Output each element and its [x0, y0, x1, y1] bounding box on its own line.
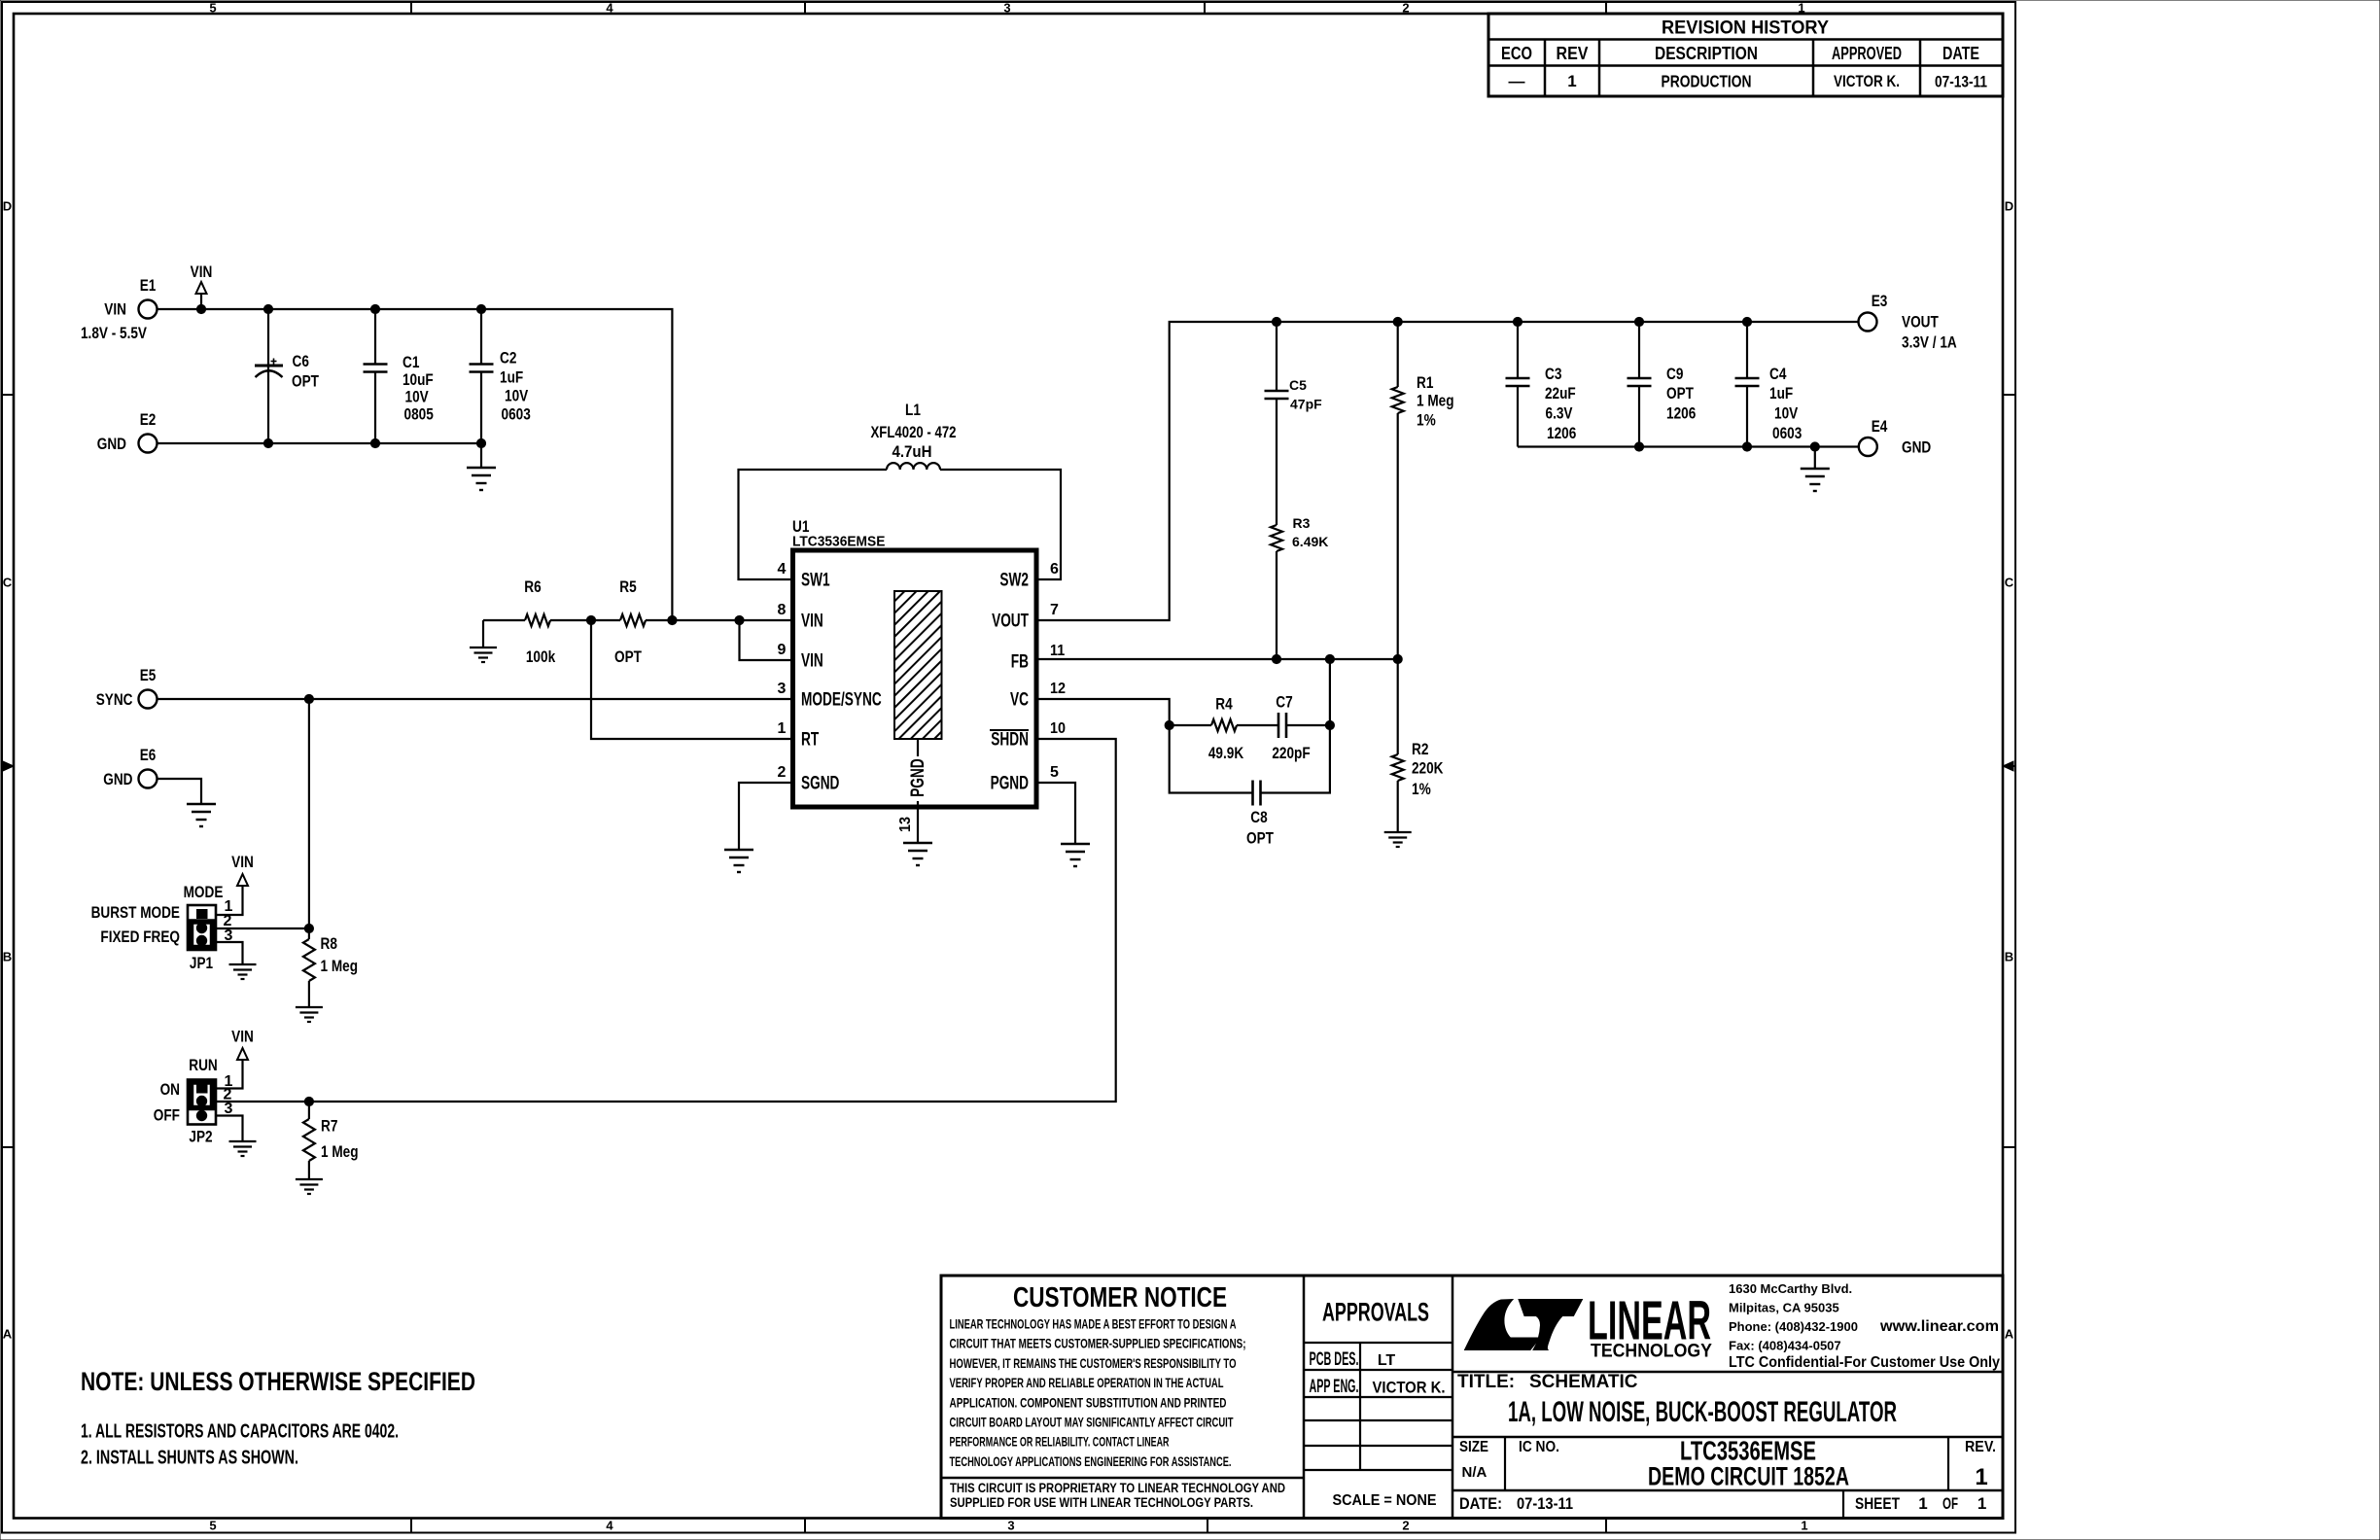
svg-text:E1: E1 — [140, 276, 157, 295]
wire JP2 pin 1 to VIN flag — [216, 1060, 243, 1089]
svg-text:VIN: VIN — [104, 300, 126, 319]
capacitor C5 47pF — [1265, 322, 1323, 525]
power flag VIN (JP1) — [231, 853, 254, 886]
svg-text:D: D — [3, 199, 12, 214]
svg-text:6.49K: 6.49K — [1292, 534, 1328, 549]
svg-text:C: C — [3, 576, 13, 590]
svg-text:1: 1 — [1801, 1519, 1807, 1533]
svg-text:9: 9 — [778, 642, 787, 658]
svg-text:DESCRIPTION: DESCRIPTION — [1655, 44, 1758, 63]
ground at output rail — [1801, 447, 1830, 492]
resistor R6 100k — [483, 577, 591, 666]
svg-text:1630 McCarthy Blvd.: 1630 McCarthy Blvd. — [1729, 1281, 1852, 1296]
capacitor C8 OPT — [1246, 781, 1274, 848]
capacitor C4 1uF — [1735, 322, 1802, 447]
junction VOUT / C3 — [1513, 317, 1522, 326]
U1 pin name SHDN (active low) — [990, 729, 1029, 751]
svg-text:1 Meg: 1 Meg — [321, 1142, 359, 1161]
wire JP1 pin 3 to ground — [216, 942, 243, 964]
logo Linear Technology — [1465, 1290, 1713, 1362]
svg-text:1%: 1% — [1412, 780, 1431, 798]
svg-text:6.3V: 6.3V — [1546, 404, 1574, 423]
svg-text:U1: U1 — [792, 517, 809, 536]
svg-text:R4: R4 — [1215, 695, 1233, 714]
svg-text:22uF: 22uF — [1545, 384, 1576, 402]
svg-text:N/A: N/A — [1462, 1464, 1487, 1481]
border center arrow left — [2, 761, 14, 771]
svg-text:PGND: PGND — [907, 758, 928, 796]
svg-text:GND: GND — [97, 435, 126, 453]
junction JP1 pin2 / R8 — [304, 924, 313, 932]
junction gnd rail / C2 — [476, 438, 485, 447]
svg-text:HOWEVER, IT REMAINS THE CUSTOM: HOWEVER, IT REMAINS THE CUSTOMER'S RESPO… — [950, 1356, 1237, 1371]
svg-text:1%: 1% — [1417, 411, 1436, 430]
svg-text:1: 1 — [1567, 72, 1576, 90]
svg-text:C1: C1 — [402, 353, 419, 371]
svg-text:A: A — [3, 1327, 13, 1342]
svg-text:OPT: OPT — [292, 372, 319, 391]
svg-text:BURST MODE: BURST MODE — [91, 903, 180, 922]
wire PGND pin 5 to ground — [1036, 783, 1075, 844]
svg-text:5: 5 — [209, 1, 216, 16]
ground at pin 13 — [903, 843, 932, 865]
svg-text:LTC Confidential-For Customer: LTC Confidential-For Customer Use Only — [1729, 1354, 2000, 1371]
svg-text:RT: RT — [801, 729, 819, 751]
svg-text:GND: GND — [103, 770, 132, 788]
svg-text:SYNC: SYNC — [96, 690, 133, 709]
svg-text:CIRCUIT BOARD LAYOUT MAY SIGNI: CIRCUIT BOARD LAYOUT MAY SIGNIFICANTLY A… — [950, 1416, 1234, 1430]
svg-text:1 Meg: 1 Meg — [321, 957, 359, 975]
svg-text:VICTOR K.: VICTOR K. — [1373, 1379, 1446, 1397]
border zone letters right — [2005, 199, 2014, 1342]
svg-text:VIN: VIN — [801, 611, 823, 632]
svg-text:XFL4020 - 472: XFL4020 - 472 — [871, 423, 957, 441]
junction gnd rail / C1 — [370, 438, 379, 447]
ground at R6 — [470, 620, 497, 662]
junction out gnd / C4 — [1742, 442, 1751, 451]
svg-text:C4: C4 — [1769, 365, 1787, 383]
svg-text:SGND: SGND — [801, 773, 839, 794]
junction out gnd / C9 — [1634, 442, 1643, 451]
svg-text:OPT: OPT — [1666, 384, 1694, 402]
svg-text:1.8V - 5.5V: 1.8V - 5.5V — [81, 324, 148, 342]
IC U1 LTC3536EMSE body — [792, 517, 1036, 807]
svg-text:SIZE: SIZE — [1459, 1439, 1488, 1455]
svg-text:1: 1 — [1977, 1494, 1986, 1513]
svg-text:OPT: OPT — [614, 647, 642, 666]
svg-text:SW2: SW2 — [999, 570, 1029, 591]
wire JP2 pin 3 to ground — [216, 1116, 243, 1142]
junction SYNC / JP1 branch — [304, 694, 313, 703]
svg-text:APPLICATION. COMPONENT SUBSTI: APPLICATION. COMPONENT SUBSTITUTION AND … — [950, 1395, 1227, 1410]
U1 exposed pad PGND (hatched) — [894, 591, 942, 797]
wire FB net pin 11 — [1036, 658, 1398, 660]
junction FB / C7-C8 branch — [1325, 654, 1334, 663]
svg-text:1: 1 — [1975, 1464, 1987, 1490]
ground at R8 — [296, 1007, 323, 1022]
svg-text:LINEAR TECHNOLOGY HAS MADE A B: LINEAR TECHNOLOGY HAS MADE A BEST EFFORT… — [950, 1317, 1237, 1332]
junction out gnd / gnd symbol — [1810, 442, 1819, 451]
customer notice text — [950, 1282, 1286, 1510]
svg-text:R5: R5 — [619, 577, 636, 596]
power flag VIN (input) — [191, 262, 213, 309]
svg-text:2: 2 — [1402, 1519, 1409, 1533]
svg-text:1: 1 — [778, 720, 787, 737]
svg-text:TECHNOLOGY: TECHNOLOGY — [1591, 1342, 1712, 1362]
resistor R4 49.9K — [1170, 695, 1278, 763]
junction JP2 pin2 / R7 — [304, 1097, 313, 1105]
junction VOUT / R1 branch — [1393, 317, 1402, 326]
svg-text:JP2: JP2 — [189, 1128, 212, 1146]
wire E6 to ground — [157, 779, 202, 804]
svg-text:—: — — [1509, 72, 1525, 90]
svg-text:R3: R3 — [1293, 515, 1311, 531]
svg-text:C2: C2 — [500, 349, 516, 367]
svg-text:A: A — [2005, 1327, 2014, 1342]
wire SYNC vertical to JP1 pin 2 — [308, 699, 310, 928]
wire JP2 pin 2 / SHDN net — [216, 739, 1116, 1102]
svg-text:R8: R8 — [321, 934, 337, 953]
svg-text:C8: C8 — [1250, 808, 1267, 826]
wire JP1 pin 1 to VIN flag — [216, 886, 243, 915]
capacitor C9 OPT — [1627, 322, 1697, 447]
ground at JP2 pin 3 — [229, 1141, 257, 1156]
approvals block — [1310, 1298, 1446, 1510]
svg-text:07-13-11: 07-13-11 — [1517, 1494, 1573, 1513]
svg-text:APP ENG.: APP ENG. — [1310, 1377, 1359, 1397]
svg-text:C3: C3 — [1545, 365, 1561, 383]
svg-text:E2: E2 — [140, 410, 157, 429]
connector E4 GND — [1859, 417, 1931, 457]
svg-text:VIN: VIN — [231, 1028, 254, 1046]
title block frame — [941, 1276, 2003, 1519]
svg-text:REV: REV — [1557, 44, 1589, 63]
svg-text:3: 3 — [778, 681, 787, 697]
svg-text:C: C — [2005, 576, 2014, 590]
svg-text:1206: 1206 — [1547, 424, 1576, 442]
svg-text:4.7uH: 4.7uH — [892, 442, 932, 461]
svg-text:SW1: SW1 — [801, 570, 830, 591]
wire SW1 to L1 — [739, 470, 888, 579]
wire VC pin 12 — [1036, 699, 1170, 725]
svg-text:13: 13 — [897, 817, 914, 832]
junction VIN rail / C6 — [263, 304, 272, 313]
svg-text:10V: 10V — [1774, 404, 1799, 423]
svg-text:C7: C7 — [1276, 693, 1292, 712]
svg-text:RUN: RUN — [189, 1056, 218, 1074]
svg-text:OPT: OPT — [1246, 829, 1274, 848]
junction VC / R4 / C8 — [1165, 720, 1173, 729]
svg-text:5: 5 — [1050, 764, 1059, 781]
svg-text:IC NO.: IC NO. — [1519, 1439, 1559, 1455]
svg-text:VOUT: VOUT — [1902, 313, 1939, 332]
jumper JP1 MODE — [91, 883, 224, 972]
svg-text:8: 8 — [778, 602, 787, 618]
svg-text:ECO: ECO — [1501, 44, 1532, 63]
svg-text:Phone: (408)432-1900: Phone: (408)432-1900 — [1729, 1319, 1858, 1334]
svg-text:D: D — [2005, 199, 2013, 214]
junction VIN rail / VIN flag — [196, 304, 205, 313]
svg-text:11: 11 — [1050, 643, 1065, 659]
svg-text:3: 3 — [1007, 1519, 1014, 1533]
svg-text:SHEET: SHEET — [1855, 1494, 1900, 1513]
wire VIN to pin 8 — [672, 619, 792, 621]
wire L1 to SW2 — [940, 470, 1061, 579]
junction pin8/pin9 branch — [735, 615, 744, 624]
junction gnd rail / C6 — [263, 438, 272, 447]
svg-text:LTC3536EMSE: LTC3536EMSE — [792, 535, 886, 550]
ground at R2 — [1384, 832, 1412, 847]
wire SGND pin 2 to ground — [739, 783, 793, 850]
svg-text:1206: 1206 — [1666, 404, 1696, 423]
svg-text:5: 5 — [209, 1519, 216, 1533]
svg-text:VICTOR K.: VICTOR K. — [1834, 73, 1900, 90]
wire input ground rail — [157, 442, 482, 444]
ground at JP1 pin 3 — [229, 964, 257, 979]
svg-text:C6: C6 — [293, 352, 309, 370]
svg-text:B: B — [3, 950, 12, 964]
svg-text:100k: 100k — [526, 647, 556, 666]
svg-text:VC: VC — [1010, 689, 1029, 711]
border zone ticks bottom — [411, 1519, 1606, 1533]
svg-text:1 Meg: 1 Meg — [1417, 392, 1454, 410]
svg-text:R7: R7 — [321, 1117, 337, 1136]
svg-text:E6: E6 — [140, 746, 157, 764]
svg-text:JP1: JP1 — [190, 954, 213, 972]
svg-text:DEMO CIRCUIT 1852A: DEMO CIRCUIT 1852A — [1648, 1462, 1849, 1491]
svg-text:1uF: 1uF — [500, 368, 523, 387]
wire output ground rail — [1518, 445, 1859, 447]
svg-text:10uF: 10uF — [402, 370, 434, 389]
svg-text:2: 2 — [778, 764, 787, 781]
svg-text:Milpitas, CA 95035: Milpitas, CA 95035 — [1729, 1301, 1839, 1315]
svg-text:1: 1 — [1918, 1494, 1927, 1513]
border zone ticks sides — [2, 395, 2015, 1147]
svg-text:4: 4 — [606, 1, 613, 16]
svg-text:VIN: VIN — [191, 262, 213, 281]
revision history table — [1488, 14, 2003, 96]
capacitor C6 (polarized, OPT) — [255, 309, 319, 443]
resistor R2 220K 1% — [1392, 659, 1444, 832]
svg-text:MODE/SYNC: MODE/SYNC — [801, 689, 882, 711]
border zone letters left — [3, 199, 13, 1342]
svg-text:2: 2 — [1402, 1, 1409, 16]
border center arrow right — [2003, 761, 2015, 771]
svg-text:47pF: 47pF — [1290, 397, 1322, 412]
svg-text:R6: R6 — [524, 577, 541, 596]
wire VOUT pin 7 to output rail — [1036, 322, 1859, 620]
connector E6 GND — [103, 746, 157, 788]
svg-text:10V: 10V — [405, 388, 430, 406]
svg-text:SHDN: SHDN — [991, 729, 1029, 751]
svg-text:SCHEMATIC: SCHEMATIC — [1529, 1372, 1638, 1392]
capacitor C1 10uF — [364, 309, 434, 443]
svg-text:VIN: VIN — [801, 650, 823, 672]
resistor R8 1 Meg — [303, 928, 358, 1007]
svg-text:OF: OF — [1942, 1494, 1958, 1513]
junction R6/R5/RT — [586, 615, 595, 624]
svg-text:7: 7 — [1050, 602, 1059, 618]
wire VIN rail from E1 to U1 VIN — [157, 309, 673, 620]
svg-text:12: 12 — [1050, 681, 1066, 697]
svg-text:CUSTOMER NOTICE: CUSTOMER NOTICE — [1013, 1282, 1227, 1313]
ground at SGND — [724, 850, 753, 872]
svg-text:DATE: DATE — [1942, 44, 1979, 63]
svg-text:VERIFY PROPER AND RELIABLE OPE: VERIFY PROPER AND RELIABLE OPERATION IN … — [950, 1376, 1224, 1390]
ground at E6 — [187, 804, 216, 826]
border zone numbers bottom — [209, 1519, 1807, 1533]
junction FB / R3 — [1272, 654, 1280, 663]
svg-text:ON: ON — [160, 1080, 180, 1099]
svg-text:2. INSTALL SHUNTS AS SHOWN.: 2. INSTALL SHUNTS AS SHOWN. — [81, 1448, 298, 1469]
svg-text:FB: FB — [1011, 651, 1029, 673]
junction VIN rail / C1 — [370, 304, 379, 313]
wire SYNC to MODE/SYNC pin 3 — [157, 698, 793, 700]
junction R4-C7 / C8 / FB branch — [1325, 720, 1334, 729]
junction VOUT / C9 — [1634, 317, 1643, 326]
border zone ticks top — [411, 2, 1606, 14]
ground at PGND pin 5 — [1061, 844, 1090, 866]
svg-text:LT: LT — [1378, 1352, 1396, 1369]
svg-text:www.linear.com: www.linear.com — [1879, 1318, 1999, 1335]
svg-text:PGND: PGND — [991, 773, 1029, 794]
svg-text:E5: E5 — [140, 666, 157, 684]
svg-text:10V: 10V — [505, 387, 529, 405]
power flag VIN (JP2) — [231, 1028, 254, 1061]
svg-text:4: 4 — [606, 1519, 613, 1533]
connector E1 VIN — [81, 276, 157, 342]
jumper JP2 RUN — [154, 1056, 218, 1146]
svg-text:4: 4 — [778, 561, 787, 577]
resistor R5 OPT — [591, 577, 672, 666]
svg-text:OFF: OFF — [154, 1106, 180, 1125]
svg-text:VOUT: VOUT — [992, 611, 1029, 632]
svg-text:PRODUCTION: PRODUCTION — [1662, 72, 1752, 91]
connector E2 GND — [97, 410, 157, 453]
svg-text:PCB DES.: PCB DES. — [1310, 1349, 1359, 1370]
resistor R7 1 Meg — [303, 1102, 359, 1179]
resistor R3 6.49K — [1271, 515, 1328, 659]
svg-text:0603: 0603 — [1772, 424, 1802, 442]
junction VOUT / C4 — [1742, 317, 1751, 326]
svg-text:DATE:: DATE: — [1459, 1494, 1502, 1513]
company address — [1729, 1281, 2000, 1371]
svg-text:VIN: VIN — [231, 853, 254, 871]
svg-text:TECHNOLOGY APPLICATIONS ENGINE: TECHNOLOGY APPLICATIONS ENGINEERING FOR … — [950, 1454, 1232, 1469]
svg-text:07-13-11: 07-13-11 — [1935, 73, 1987, 91]
wire JP1 pin 2 — [216, 927, 309, 929]
wire VIN to pin 9 — [740, 620, 793, 660]
svg-text:1uF: 1uF — [1769, 384, 1793, 402]
svg-text:C5: C5 — [1289, 377, 1307, 393]
wire C8 branch — [1170, 659, 1330, 793]
svg-text:3: 3 — [1003, 1, 1010, 16]
svg-text:1. ALL RESISTORS AND CAPACITO: 1. ALL RESISTORS AND CAPACITORS ARE 0402… — [81, 1421, 399, 1443]
svg-text:1A, LOW NOISE, BUCK-BOOST REGU: 1A, LOW NOISE, BUCK-BOOST REGULATOR — [1508, 1396, 1897, 1428]
capacitor C3 22uF — [1506, 322, 1577, 447]
svg-text:APPROVALS: APPROVALS — [1322, 1298, 1429, 1327]
svg-text:0603: 0603 — [502, 405, 531, 424]
svg-text:R1: R1 — [1417, 373, 1433, 392]
svg-text:Fax: (408)434-0507: Fax: (408)434-0507 — [1729, 1339, 1841, 1353]
resistor R1 1 Meg 1% — [1392, 322, 1454, 659]
svg-text:E3: E3 — [1872, 292, 1888, 310]
wire RT net — [591, 620, 793, 739]
capacitor C7 220pF — [1272, 693, 1330, 763]
svg-text:220K: 220K — [1412, 759, 1444, 778]
svg-text:GND: GND — [1902, 438, 1931, 457]
svg-text:E4: E4 — [1872, 417, 1888, 436]
svg-text:APPROVED: APPROVED — [1832, 44, 1902, 63]
svg-text:TITLE:: TITLE: — [1457, 1372, 1515, 1392]
svg-text:6: 6 — [1050, 561, 1059, 577]
svg-text:PERFORMANCE OR RELIABILITY. C: PERFORMANCE OR RELIABILITY. CONTACT LINE… — [950, 1435, 1170, 1450]
svg-text:THIS CIRCUIT IS PROPRIETARY TO: THIS CIRCUIT IS PROPRIETARY TO LINEAR TE… — [950, 1481, 1285, 1495]
junction R5 / VIN rail — [668, 615, 677, 624]
svg-text:SCALE = NONE: SCALE = NONE — [1333, 1492, 1437, 1509]
junction VOUT / C5 branch — [1272, 317, 1280, 326]
svg-text:49.9K: 49.9K — [1208, 744, 1244, 762]
connector E5 SYNC — [96, 666, 157, 709]
svg-text:FIXED FREQ: FIXED FREQ — [100, 927, 180, 946]
svg-text:3.3V / 1A: 3.3V / 1A — [1902, 333, 1957, 352]
svg-text:220pF: 220pF — [1272, 744, 1310, 762]
svg-text:L1: L1 — [905, 401, 921, 419]
svg-text:R2: R2 — [1412, 740, 1428, 758]
capacitor C2 1uF — [470, 309, 531, 443]
border zone numbers top — [209, 1, 1804, 16]
connector E3 VOUT — [1859, 292, 1957, 352]
svg-text:NOTE: UNLESS OTHERWISE SPECIFI: NOTE: UNLESS OTHERWISE SPECIFIED — [81, 1367, 475, 1396]
inductor L1 XFL4020-472 4.7uH — [871, 401, 957, 470]
title fields — [1457, 1372, 1996, 1513]
wire exposed pad pin 13 to ground — [917, 739, 919, 843]
junction VIN rail / C2 — [476, 304, 485, 313]
svg-text:10: 10 — [1050, 720, 1066, 737]
ground at R7 — [296, 1179, 323, 1194]
svg-text:C9: C9 — [1666, 365, 1683, 383]
svg-text:CIRCUIT THAT MEETS CUSTOMER-SU: CIRCUIT THAT MEETS CUSTOMER-SUPPLIED SPE… — [950, 1337, 1246, 1351]
svg-text:REV.: REV. — [1965, 1439, 1996, 1455]
svg-text:REVISION HISTORY: REVISION HISTORY — [1662, 18, 1829, 39]
svg-text:SUPPLIED FOR USE WITH LINEAR T: SUPPLIED FOR USE WITH LINEAR TECHNOLOGY … — [950, 1495, 1253, 1510]
svg-text:0805: 0805 — [404, 405, 434, 424]
svg-text:MODE: MODE — [184, 883, 224, 901]
svg-text:B: B — [2005, 950, 2013, 964]
junction FB / R1 R2 — [1393, 654, 1402, 663]
ground input rail — [467, 443, 496, 490]
